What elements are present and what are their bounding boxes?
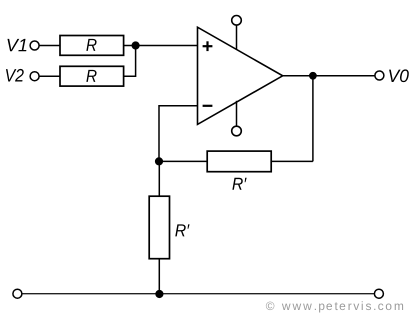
node V1 input label: [7, 39, 26, 51]
wire junction down to ground resistor: [158, 161, 160, 196]
value label R' (ground leg): [175, 224, 189, 236]
node V0 output label: [389, 69, 409, 82]
watermark copyright: [266, 301, 403, 312]
wire bottom common rail: [22, 293, 375, 295]
wire V2 terminal to R: [39, 75, 60, 77]
wire op-amp output to V0 terminal: [283, 75, 375, 77]
op-amp U1 triangle: [198, 27, 283, 124]
wire op-amp bottom power lead: [236, 101, 238, 126]
resistor R' to ground: [149, 196, 169, 259]
wire ground resistor to bottom rail: [158, 259, 160, 294]
value label R (V1 branch): [86, 39, 96, 51]
value label R' (feedback): [232, 178, 246, 190]
terminal V1: [30, 41, 39, 50]
wire op-amp top power lead: [236, 25, 238, 50]
terminal negative supply: [232, 126, 242, 136]
resistor R (V2 branch): [60, 66, 124, 86]
terminal bottom-left common: [13, 289, 22, 298]
node inverting/feedback junction: [155, 157, 163, 165]
wire inverting input: [159, 106, 198, 162]
node junction of V1/V2 resistors: [132, 41, 140, 49]
op-amp minus input marker: [203, 105, 213, 107]
terminal V0: [375, 71, 384, 80]
terminal V2: [30, 72, 39, 81]
terminal positive supply: [232, 15, 242, 25]
wire R to op-amp non-inverting input: [124, 45, 198, 47]
node bottom rail junction: [155, 290, 163, 298]
wire V2 resistor up to junction: [124, 46, 136, 77]
resistor R (V1 branch): [60, 36, 124, 56]
value label R (V2 branch): [86, 70, 96, 82]
wire output junction down to feedback resistor: [312, 76, 314, 162]
resistor R' feedback: [207, 151, 271, 172]
op-amp plus input marker: [203, 41, 213, 51]
wire feedback resistor left lead to inverting node: [159, 160, 207, 162]
wire V1 terminal to R: [39, 45, 60, 47]
node output junction: [309, 72, 317, 80]
terminal bottom-right common: [374, 289, 383, 298]
wire feedback resistor right lead: [271, 160, 313, 162]
node V2 input label: [6, 69, 24, 82]
